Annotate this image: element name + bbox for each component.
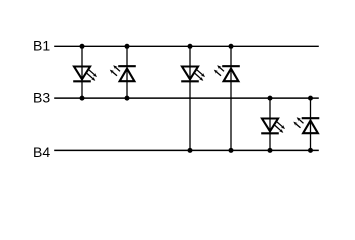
bus wire B3 (horizontal) [54, 97, 319, 99]
junction B4/D6 [308, 148, 313, 153]
svg-text:B3: B3 [33, 90, 50, 106]
junction B1/D2 [125, 44, 130, 49]
LED D6 (B4 to B3, cathode up) [293, 117, 319, 133]
LED D4 (B4 to B1, cathode up) [214, 65, 240, 81]
junction B3/D2 [125, 96, 130, 101]
bus wire B1 (horizontal) [54, 45, 319, 47]
wire D1 branch (B1 to B3) [81, 46, 83, 98]
svg-text:B1: B1 [33, 38, 50, 54]
junction B4/D4 [229, 148, 234, 153]
junction B4/D5 [268, 148, 273, 153]
LED D5 (B3 to B4, cathode down) [261, 119, 285, 134]
LED D3 (B1 to B4, cathode down) [181, 67, 205, 82]
junction B1/D4 [229, 44, 234, 49]
junction B1/D3 [188, 44, 193, 49]
wire D6 branch (B3 to B4) [310, 98, 312, 150]
LED D2 (B3 to B1, cathode up) [110, 65, 136, 81]
junction B1/D1 [80, 44, 85, 49]
junction B4/D3 [188, 148, 193, 153]
wire D4 branch (B1 to B4, crosses B3) [230, 46, 232, 150]
wire D2 branch (B1 to B3) [126, 46, 128, 98]
wire D3 branch (B1 to B4, crosses B3) [189, 46, 191, 150]
junction B3/D6 [308, 96, 313, 101]
svg-text:B4: B4 [33, 144, 50, 160]
junction B3/D1 [80, 96, 85, 101]
junction B3/D5 [268, 96, 273, 101]
wire D5 branch (B3 to B4) [269, 98, 271, 150]
bus wire B4 (horizontal) [54, 149, 319, 151]
LED D1 (B1 to B3, cathode down) [73, 67, 97, 82]
